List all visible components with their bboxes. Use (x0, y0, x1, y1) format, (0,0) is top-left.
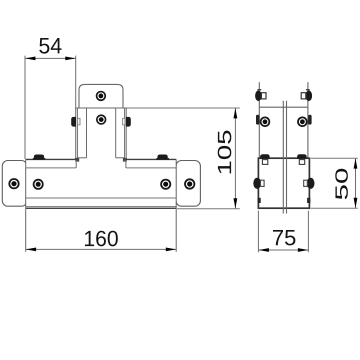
bar screw left (34, 180, 43, 189)
side nut left of face screw (256, 115, 259, 125)
dim 160 extension line left (bar edge continued) (25, 159, 27, 251)
dim 50 arrow down (354, 198, 358, 208)
branch wall right (307, 82, 309, 158)
channel outer wall left (double line) (75, 108, 77, 160)
body side screw left: head (253, 178, 261, 189)
body bottom nub left (258, 198, 261, 203)
bar body fill (covers plate inner edges) (26, 159, 177, 209)
top horizontal screw right: head (306, 91, 313, 102)
bar top screw bump left (34, 155, 44, 160)
dim 160 arrow right (166, 248, 176, 252)
top horizontal screw right: nut (301, 93, 306, 99)
junction shelf left (77, 157, 86, 159)
end plate screw left (9, 179, 18, 188)
dim 160 arrow left (26, 248, 36, 252)
dim 50 extension line bottom (311, 207, 358, 209)
dim 160 label (85, 231, 118, 247)
joint line right (286, 101, 288, 214)
dim 75 arrow left (259, 248, 269, 252)
bar bottom line 1 (26, 206, 177, 208)
dim 50 arrow up (354, 158, 358, 168)
dim 54 arrow right (65, 57, 75, 61)
end plate right (rounded coupler plate) (176, 161, 200, 207)
dim 105 line (234, 108, 236, 209)
side nut right of face screw (308, 115, 311, 125)
wall top tick right (306, 89, 310, 91)
face screw left (261, 117, 270, 126)
channel top edge line (75, 107, 126, 109)
dim 50 extension line top (311, 157, 358, 159)
coupler top piece (79, 84, 123, 108)
bar cover lip line left (26, 167, 76, 169)
branch wall left (258, 82, 260, 158)
dim 54 arrow left (25, 57, 35, 61)
body top screw bump left (260, 154, 270, 158)
channel inner wall left (86, 108, 88, 158)
dim 105 label (rotated) (218, 131, 232, 174)
end plate left (rounded coupler plate) (2, 161, 27, 207)
top horizontal screw left: nut (261, 93, 266, 99)
side body (horizontal run cross run) (258, 158, 309, 208)
joint line left (282, 101, 284, 214)
channel inner wall right (115, 108, 117, 158)
dim 50 line (355, 158, 357, 208)
wall top tick left (257, 89, 261, 91)
body side screw right: nut (304, 180, 308, 186)
dim 105 extension line bottom (177, 208, 240, 210)
top horizontal screw left: head (255, 91, 262, 102)
dim 105 arrow up (234, 108, 238, 118)
body side screw right: head (307, 178, 315, 189)
dim 75 label (273, 230, 295, 245)
bar top edge right segment (125, 158, 176, 160)
coupler bottom edge line (side) (259, 106, 308, 108)
dim 105 arrow down (234, 198, 238, 208)
bar lower inner line (26, 197, 177, 199)
channel outer wall right (double line) (124, 108, 126, 160)
dim 75 extension line right (307, 211, 309, 253)
dim 50 label (rotated) (335, 169, 348, 200)
bar top edge left segment (26, 158, 77, 160)
dim 160 extension line right (bar edge continued) (175, 159, 177, 251)
channel side screw left (edge-on) (78, 118, 80, 124)
channel side screw right (edge-on) (123, 118, 125, 124)
dim 75 line (258, 249, 308, 251)
junction corner blob left (75, 158, 79, 162)
dim 54 label (39, 38, 61, 54)
body side screw left: nut (261, 180, 265, 186)
bar bottom line 2 (26, 207, 177, 209)
body bottom nub right (307, 198, 310, 203)
junction shelf right (116, 157, 125, 159)
dim 160 line (26, 248, 177, 250)
dim 54 extension line left (24, 56, 26, 159)
junction step vertical left (75, 160, 77, 168)
coupler screw 1 (97, 92, 106, 101)
dim 75 extension line left (257, 211, 259, 253)
bar top screw bump right (157, 155, 167, 160)
dim 75 arrow right (298, 248, 308, 252)
face screw right (298, 117, 307, 126)
bar screw right (161, 180, 170, 189)
dim 105 extension line top (127, 107, 240, 109)
bar cover lip line right (126, 167, 176, 169)
end plate screw right (185, 179, 194, 188)
junction corner blob right (123, 158, 127, 162)
coupler screw 2 (97, 115, 106, 124)
dim 54 extension line right (upper part, merges into channel wall) (75, 56, 77, 108)
junction step vertical right (125, 160, 127, 168)
body top screw bump right (297, 154, 307, 158)
dim 54 line (25, 57, 76, 59)
